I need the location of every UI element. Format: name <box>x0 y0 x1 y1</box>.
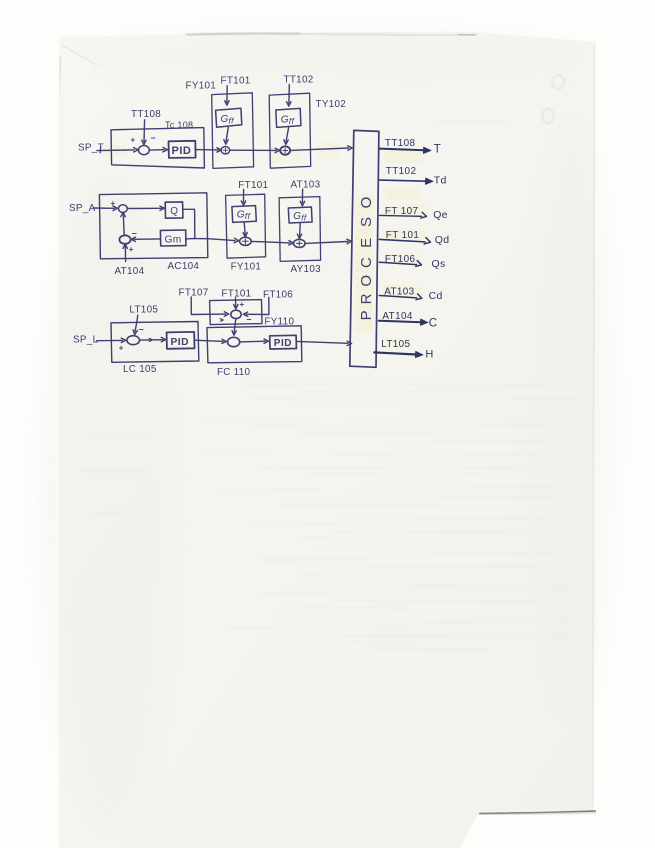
svg-text:O: O <box>358 197 375 209</box>
svg-text:LC 105: LC 105 <box>123 364 157 375</box>
svg-text:–: – <box>247 314 252 324</box>
svg-text:Qd: Qd <box>435 234 450 246</box>
svg-text:C: C <box>358 257 375 268</box>
svg-text:AC104: AC104 <box>168 261 200 272</box>
svg-text:E: E <box>358 238 375 248</box>
svg-text:TY102: TY102 <box>316 99 347 110</box>
svg-text:–: – <box>132 228 137 238</box>
svg-text:C: C <box>429 318 438 330</box>
svg-text:G: G <box>293 211 301 222</box>
svg-text:T: T <box>434 143 441 155</box>
svg-text:AT103: AT103 <box>291 180 321 191</box>
svg-text:FT101: FT101 <box>221 288 251 299</box>
svg-text:TT108: TT108 <box>131 109 161 120</box>
svg-text:Qe: Qe <box>433 209 448 221</box>
svg-text:FT106: FT106 <box>263 289 293 300</box>
svg-text:FC 110: FC 110 <box>217 367 250 378</box>
svg-text:PID: PID <box>274 338 292 349</box>
svg-text:S: S <box>358 217 375 227</box>
svg-text:AY103: AY103 <box>291 264 322 275</box>
svg-text:G: G <box>237 210 245 221</box>
svg-text:+: + <box>131 136 136 145</box>
svg-text:PID: PID <box>171 337 189 348</box>
svg-text:TT102: TT102 <box>386 166 417 177</box>
svg-text:FT101: FT101 <box>221 75 251 86</box>
svg-text:Cd: Cd <box>429 290 443 302</box>
svg-text:Td: Td <box>434 175 447 187</box>
svg-text:G: G <box>281 114 289 125</box>
svg-text:PID: PID <box>172 145 192 157</box>
svg-text:Q: Q <box>170 206 178 217</box>
svg-text:FT101: FT101 <box>238 180 268 191</box>
svg-text:SP_A: SP_A <box>69 203 96 214</box>
svg-text:Tc 108: Tc 108 <box>165 120 193 130</box>
svg-text:FY101: FY101 <box>186 80 217 91</box>
svg-text:FT107: FT107 <box>179 287 209 298</box>
svg-text:–: – <box>139 324 144 334</box>
svg-text:FY101: FY101 <box>231 261 262 272</box>
svg-text:+: + <box>111 199 116 208</box>
svg-text:LT105: LT105 <box>381 339 410 350</box>
svg-text:+: + <box>129 245 134 254</box>
svg-text:LT105: LT105 <box>129 305 158 316</box>
svg-text:+: + <box>119 344 124 353</box>
svg-text:P: P <box>358 310 375 320</box>
svg-text:TT102: TT102 <box>284 75 314 86</box>
svg-text:TT108: TT108 <box>385 138 416 149</box>
svg-text:Qs: Qs <box>432 258 446 270</box>
svg-text:Gm: Gm <box>165 235 182 246</box>
svg-text:G: G <box>221 114 229 125</box>
svg-text:–: – <box>151 133 156 143</box>
svg-text:+: + <box>240 300 245 309</box>
svg-text:AT104: AT104 <box>115 266 145 277</box>
svg-text:O: O <box>358 275 375 287</box>
svg-text:R: R <box>358 293 375 304</box>
svg-text:H: H <box>425 349 433 361</box>
svg-text:SP_L: SP_L <box>73 335 99 346</box>
